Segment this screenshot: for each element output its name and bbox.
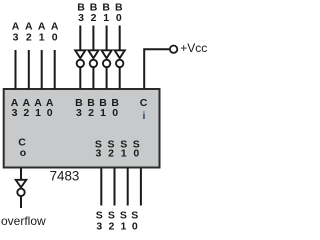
svg-text:2: 2 (26, 31, 32, 43)
svg-text:3: 3 (76, 107, 82, 119)
svg-text:7483: 7483 (50, 168, 80, 183)
svg-text:3: 3 (12, 107, 18, 119)
svg-text:1: 1 (35, 107, 41, 119)
svg-text:C: C (140, 97, 148, 109)
svg-text:3: 3 (96, 220, 102, 232)
svg-text:1: 1 (121, 148, 127, 160)
svg-text:3: 3 (13, 31, 19, 43)
svg-text:o: o (20, 147, 26, 159)
svg-text:i: i (143, 110, 146, 122)
svg-text:1: 1 (39, 31, 45, 43)
svg-text:0: 0 (132, 220, 138, 232)
svg-text:2: 2 (91, 12, 97, 24)
svg-text:2: 2 (88, 107, 94, 119)
svg-text:3: 3 (95, 148, 101, 160)
svg-text:0: 0 (112, 107, 118, 119)
svg-text:1: 1 (103, 12, 109, 24)
svg-text:0: 0 (116, 12, 122, 24)
svg-text:2: 2 (108, 220, 114, 232)
svg-text:1: 1 (100, 107, 106, 119)
svg-text:1: 1 (120, 220, 126, 232)
svg-text:2: 2 (108, 148, 114, 160)
svg-text:3: 3 (78, 12, 84, 24)
svg-text:+Vcc: +Vcc (180, 41, 207, 55)
svg-text:2: 2 (23, 107, 29, 119)
svg-text:0: 0 (133, 148, 139, 160)
svg-text:overflow: overflow (1, 214, 46, 228)
svg-text:0: 0 (52, 31, 58, 43)
svg-text:0: 0 (47, 107, 53, 119)
